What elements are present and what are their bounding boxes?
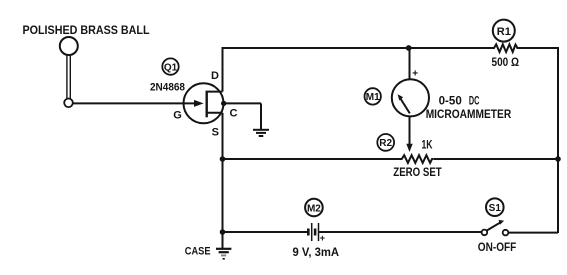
svg-text:G: G: [173, 110, 182, 122]
wire: top rail left segment: [222, 47, 494, 49]
svg-text:Q1: Q1: [164, 62, 178, 73]
wire: top rail right segment: [517, 47, 559, 49]
wire: junction down to meter: [409, 48, 411, 80]
svg-text:ZERO SET: ZERO SET: [393, 165, 442, 179]
svg-text:R2: R2: [379, 138, 392, 149]
pin label D: [211, 70, 219, 82]
meter polarity +: [412, 69, 418, 80]
label 0-50 DC: [439, 94, 480, 108]
ground (case, bottom): [216, 249, 231, 259]
brass ball electrode: [60, 37, 78, 55]
gate arrow into Q1: [194, 100, 204, 107]
svg-text:2N4868: 2N4868: [150, 82, 185, 94]
svg-text:S1: S1: [489, 203, 502, 214]
battery polarity +: [320, 233, 325, 243]
node: top rail to meter junction: [406, 45, 412, 51]
meter M1 body: [392, 79, 429, 116]
svg-text:M2: M2: [307, 203, 321, 214]
svg-text:POLISHED BRASS BALL: POLISHED BRASS BALL: [23, 25, 150, 37]
rod terminal circle: [64, 99, 73, 108]
svg-text:MICROAMMETER: MICROAMMETER: [426, 107, 512, 121]
potentiometer R2: [400, 155, 434, 163]
wire: case pin to ground: [224, 103, 261, 129]
svg-text:1K: 1K: [422, 140, 434, 152]
svg-text:500 Ω: 500 Ω: [492, 55, 520, 69]
wire: drain up to top rail: [222, 48, 224, 92]
value 9 V, 3mA: [293, 245, 340, 259]
svg-text:DC: DC: [469, 94, 480, 108]
pin label S: [212, 127, 219, 139]
wiper arrow of R2: [406, 144, 412, 152]
ground (Q1 case): [253, 130, 269, 136]
label CASE: [185, 246, 211, 258]
svg-text:+: +: [320, 233, 325, 243]
value 2N4868: [150, 82, 185, 94]
resistor R1: [492, 44, 518, 52]
antenna rod (double line): [67, 55, 70, 99]
switch S1: [482, 220, 509, 236]
label ZERO SET: [393, 165, 442, 179]
designator M2: [305, 199, 323, 217]
wire: R2 row left segment: [223, 158, 401, 160]
designator M1: [365, 88, 381, 104]
value 500 ohm: [492, 55, 520, 69]
svg-text:S: S: [212, 127, 219, 139]
node: R2 row to right rail: [555, 156, 561, 162]
svg-text:D: D: [211, 70, 219, 82]
designator R2: [377, 134, 394, 151]
svg-text:0-50: 0-50: [439, 94, 463, 108]
wire: right vertical rail: [557, 47, 559, 233]
node: source rail to bottom rail: [220, 229, 226, 235]
pin label C: [230, 108, 238, 120]
wire: bottom rail right of switch: [508, 232, 558, 234]
designator S1: [486, 198, 504, 216]
pin label G: [173, 110, 182, 122]
svg-text:9 V, 3mA: 9 V, 3mA: [293, 245, 340, 259]
battery M2: [308, 223, 318, 241]
svg-text:C: C: [230, 108, 238, 120]
node: case pin of Q1: [221, 101, 226, 106]
label ON-OFF: [478, 240, 517, 254]
designator Q1: [162, 58, 178, 74]
svg-text:M1: M1: [366, 92, 380, 103]
wire: bottom rail battery to switch: [319, 231, 482, 233]
svg-text:R1: R1: [497, 26, 511, 38]
wire: gate lead from terminal to Q1: [73, 102, 196, 104]
svg-text:+: +: [412, 69, 418, 80]
designator R1: [493, 20, 515, 42]
label MICROAMMETER: [426, 107, 512, 121]
wire: meter to R2 wiper: [409, 116, 411, 145]
svg-text:ON-OFF: ON-OFF: [478, 240, 517, 254]
wire: R2 row right segment: [434, 158, 559, 160]
value 1K: [422, 140, 434, 152]
svg-text:CASE: CASE: [185, 246, 211, 258]
transistor Q1 body: [184, 83, 224, 123]
node: source rail to R2 row: [220, 156, 226, 162]
wire: bottom rail left of battery: [223, 231, 308, 233]
wire: source down left vertical to case ground: [222, 113, 224, 249]
label POLISHED BRASS BALL: [23, 25, 150, 37]
